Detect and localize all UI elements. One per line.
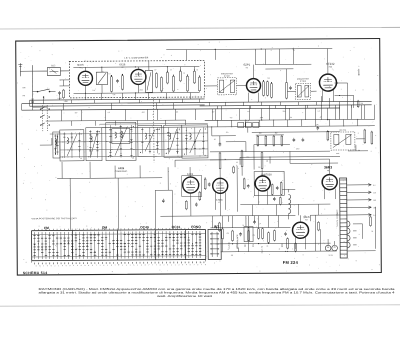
svg-text:0,1: 0,1 [108, 73, 110, 75]
svg-text:100: 100 [231, 255, 234, 257]
svg-text:C7: C7 [154, 69, 156, 71]
svg-text:F.M.: F.M. [305, 219, 309, 221]
svg-text:FM8: FM8 [329, 66, 332, 68]
svg-text:C46: C46 [316, 124, 319, 126]
svg-text:1k: 1k [183, 72, 185, 74]
svg-text:8n: 8n [267, 246, 269, 248]
svg-text:3: 3 [126, 265, 127, 267]
svg-text:6,3: 6,3 [318, 110, 320, 112]
svg-text:433: 433 [259, 133, 262, 135]
svg-text:100: 100 [93, 90, 96, 92]
svg-text:5: 5 [197, 264, 198, 266]
svg-text:8: 8 [51, 265, 52, 267]
svg-text:470k: 470k [336, 153, 340, 155]
svg-text:7: 7 [115, 265, 116, 267]
svg-text:220k: 220k [140, 89, 144, 91]
svg-text:3: 3 [100, 265, 101, 267]
svg-text:9: 9 [205, 264, 206, 266]
svg-text:6: 6 [167, 264, 168, 266]
svg-text:250: 250 [373, 207, 376, 209]
svg-text:ALTOPARLANTE: ALTOPARLANTE [236, 234, 239, 249]
svg-text:4,7k: 4,7k [113, 94, 116, 96]
svg-text:220: 220 [75, 112, 78, 114]
svg-text:L8: L8 [158, 153, 160, 155]
svg-text:IF7157: IF7157 [224, 76, 230, 78]
svg-text:6T232: 6T232 [326, 62, 335, 66]
svg-text:8: 8 [182, 264, 183, 266]
svg-text:47n: 47n [226, 132, 229, 134]
svg-text:4: 4 [73, 265, 74, 267]
svg-text:2: 2 [122, 265, 123, 267]
svg-text:AF25: AF25 [118, 167, 125, 170]
svg-text:6,3: 6,3 [373, 185, 375, 187]
svg-text:6ZP1: 6ZP1 [243, 63, 250, 67]
svg-text:7: 7 [201, 264, 202, 266]
svg-text:5: 5 [190, 264, 191, 266]
svg-text:8: 8 [145, 265, 146, 267]
svg-text:V.ALT.FM: V.ALT.FM [228, 242, 231, 250]
svg-text:8: 8 [62, 265, 63, 267]
svg-text:B+: B+ [248, 111, 250, 113]
svg-text:1000: 1000 [282, 243, 284, 247]
svg-text:100p: 100p [260, 117, 264, 119]
svg-text:9: 9 [39, 265, 40, 267]
svg-text:RIV.7204: RIV.7204 [339, 130, 346, 132]
svg-text:4: 4 [36, 265, 37, 267]
svg-text:5p: 5p [242, 225, 244, 227]
svg-text:T.A.S.T.I. CONNECT.: T.A.S.T.I. CONNECT. [336, 209, 339, 227]
svg-text:100: 100 [267, 77, 270, 79]
svg-text:8: 8 [160, 264, 161, 266]
svg-text:2: 2 [171, 264, 172, 266]
svg-text:7: 7 [148, 265, 149, 267]
svg-text:9: 9 [85, 265, 86, 267]
svg-text:7: 7 [156, 264, 157, 266]
svg-text:4: 4 [103, 265, 104, 267]
svg-text:25: 25 [214, 139, 216, 141]
svg-text:FM 224: FM 224 [283, 260, 299, 265]
svg-text:9: 9 [111, 265, 112, 267]
svg-text:4: 4 [77, 265, 78, 267]
svg-text:5k: 5k [372, 231, 374, 233]
svg-text:5: 5 [141, 265, 142, 267]
svg-text:4: 4 [186, 264, 187, 266]
svg-text:SCHEMA 514: SCHEMA 514 [23, 271, 48, 275]
svg-text:C.A.T. 70: C.A.T. 70 [261, 246, 264, 253]
svg-text:L4: L4 [80, 158, 82, 160]
svg-text:8: 8 [81, 265, 82, 267]
svg-text:22n: 22n [258, 167, 261, 169]
svg-text:5: 5 [133, 265, 134, 267]
svg-text:100: 100 [212, 111, 215, 113]
svg-text:452: 452 [275, 132, 278, 134]
svg-text:6,3V: 6,3V [246, 120, 249, 122]
svg-text:1: 1 [175, 264, 176, 266]
svg-text:8: 8 [92, 265, 93, 267]
svg-text:0,1: 0,1 [236, 162, 238, 164]
svg-text:F8: F8 [327, 170, 329, 172]
svg-text:470: 470 [227, 233, 230, 235]
svg-text:N2: N2 [246, 67, 248, 69]
svg-text:IF7203: IF7203 [300, 81, 306, 83]
svg-text:7: 7 [194, 264, 195, 266]
svg-text:6: 6 [47, 265, 48, 267]
svg-text:watt. Amplificazione 10 watt: watt. Amplificazione 10 watt [157, 294, 212, 298]
svg-text:500: 500 [245, 244, 247, 247]
svg-text:7: 7 [152, 265, 153, 267]
svg-text:RAYMOND (CARUSO) - Mod. FM52st: RAYMOND (CARUSO) - Mod. FM52st Apparecch… [39, 287, 396, 291]
svg-text:50+50: 50+50 [329, 255, 333, 257]
svg-text:9: 9 [69, 265, 70, 267]
svg-text:1500: 1500 [296, 148, 300, 150]
svg-text:250: 250 [283, 111, 286, 113]
svg-text:3: 3 [179, 264, 180, 266]
svg-text:125: 125 [373, 192, 376, 194]
svg-text:I.F.’s CONVERTER: I.F.’s CONVERTER [124, 58, 149, 60]
svg-text:47: 47 [320, 117, 322, 119]
svg-text:3: 3 [163, 264, 164, 266]
svg-text:3: 3 [43, 265, 44, 267]
svg-text:9: 9 [88, 265, 89, 267]
svg-text:CONDENSAT.: CONDENSAT. [115, 170, 128, 173]
svg-text:VISTA POSTERIORE DEI TASTI ALZ: VISTA POSTERIORE DEI TASTI ALZATI [31, 217, 77, 220]
svg-text:V1: V1 [79, 67, 81, 69]
svg-text:36R3: 36R3 [324, 165, 332, 169]
svg-text:47k: 47k [176, 111, 179, 113]
svg-text:allargata a 31 metri. Stadio a: allargata a 31 metri. Stadio ad onde ult… [39, 291, 396, 295]
svg-text:470: 470 [230, 117, 233, 119]
svg-text:V2: V2 [121, 67, 123, 69]
svg-text:1: 1 [137, 265, 138, 267]
svg-text:160: 160 [373, 200, 376, 202]
svg-text:3: 3 [107, 265, 108, 267]
svg-text:6,3: 6,3 [108, 112, 110, 114]
svg-text:10n: 10n [253, 244, 255, 247]
svg-text:47: 47 [170, 69, 172, 71]
svg-text:2: 2 [54, 265, 55, 267]
svg-text:5: 5 [66, 265, 67, 267]
svg-text:V7: V7 [218, 202, 220, 204]
svg-text:7: 7 [96, 265, 97, 267]
svg-text:100: 100 [31, 99, 34, 101]
svg-text:1: 1 [130, 265, 131, 267]
svg-text:1: 1 [118, 265, 119, 267]
svg-text:1: 1 [58, 265, 59, 267]
svg-text:6p: 6p [196, 69, 198, 71]
